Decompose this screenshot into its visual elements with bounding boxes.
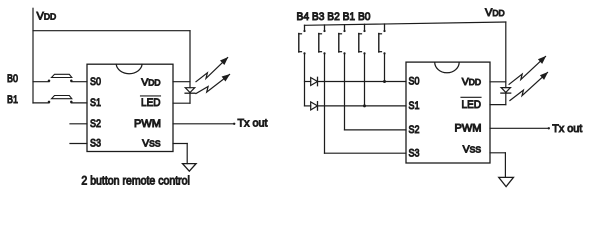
svg-text:Tx out: Tx out xyxy=(238,118,268,130)
svg-text:S3: S3 xyxy=(90,138,101,150)
svg-text:B1: B1 xyxy=(7,94,18,106)
svg-text:S2: S2 xyxy=(409,124,420,136)
svg-text:S2: S2 xyxy=(90,118,101,130)
svg-text:VDD: VDD xyxy=(141,76,160,88)
svg-text:VSS: VSS xyxy=(142,138,161,150)
svg-text:VSS: VSS xyxy=(463,143,482,155)
svg-text:S1: S1 xyxy=(409,100,420,112)
svg-text:VDD: VDD xyxy=(37,11,57,23)
svg-text:S3: S3 xyxy=(409,147,420,159)
svg-text:S0: S0 xyxy=(409,76,420,88)
svg-text:S0: S0 xyxy=(90,76,101,88)
svg-text:LED: LED xyxy=(141,97,161,109)
svg-text:Tx out: Tx out xyxy=(552,123,582,135)
svg-text:PWM: PWM xyxy=(455,123,482,135)
svg-text:B4 B3 B2 B1 B0: B4 B3 B2 B1 B0 xyxy=(297,11,371,23)
svg-text:LED: LED xyxy=(462,99,482,111)
svg-text:VDD: VDD xyxy=(462,76,481,88)
svg-text:B0: B0 xyxy=(7,73,18,85)
svg-text:2 button remote control: 2 button remote control xyxy=(81,175,189,187)
svg-text:PWM: PWM xyxy=(134,118,161,130)
svg-text:S1: S1 xyxy=(90,97,101,109)
svg-text:VDD: VDD xyxy=(485,7,505,19)
